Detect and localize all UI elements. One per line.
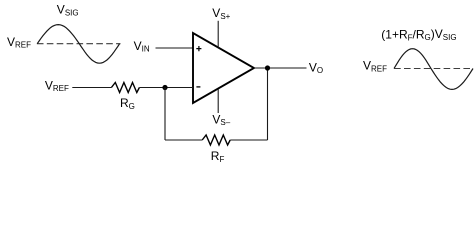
wire output node down to feedback [267, 68, 269, 140]
wire feedback bottom right segment [230, 139, 267, 141]
wire RG to inverting input [139, 87, 193, 89]
wire op-amp output to VO [254, 67, 307, 69]
wire VS+ to op-amp top edge [217, 21, 219, 48]
wire VS- to op-amp bottom edge [217, 89, 219, 113]
output waveform reference dashed line [394, 68, 473, 70]
output waveform sine [394, 49, 473, 90]
resistor RG [111, 83, 139, 93]
wire inverting node down to feedback [164, 88, 166, 141]
resistor RF [202, 135, 230, 145]
junction output node [265, 65, 270, 70]
wire VIN to op-amp noninverting input [156, 47, 194, 49]
wire VREF to RG [72, 87, 111, 89]
input waveform VSIG sine [37, 25, 119, 64]
input waveform reference dashed line [37, 43, 121, 45]
wire feedback bottom left segment [165, 139, 202, 141]
junction inverting input node [162, 85, 167, 90]
op-amp U1 [193, 33, 254, 103]
